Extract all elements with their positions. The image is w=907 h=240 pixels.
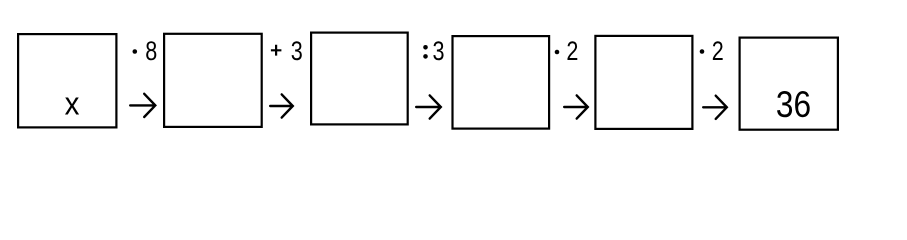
svg-text:3: 3: [291, 37, 303, 67]
box B6 (result): [740, 38, 838, 130]
label ·8 digit 8: [145, 37, 157, 67]
arrow A5: [703, 96, 727, 119]
svg-text:x: x: [65, 85, 80, 121]
label ·2 (second) operator dot: [700, 49, 705, 54]
box B2: [164, 34, 262, 127]
label :3 digit 3: [432, 37, 444, 67]
arrow A3: [416, 95, 441, 118]
label ·2 (first) digit 2: [566, 37, 578, 67]
box B4: [453, 36, 550, 129]
label ·2 (second) digit 2: [712, 37, 724, 67]
label ·8 operator dot: [133, 49, 138, 54]
arrow A2: [270, 94, 293, 117]
box B5: [595, 36, 692, 129]
label +3 digit 3: [291, 37, 303, 67]
box B3: [311, 33, 408, 125]
arrow A4: [564, 95, 588, 118]
box B1 (input): [18, 34, 116, 127]
svg-text:8: 8: [145, 37, 157, 67]
svg-text:2: 2: [712, 37, 724, 67]
label :3 colon: [423, 45, 428, 59]
svg-text:36: 36: [776, 85, 811, 126]
label ·2 (first) operator dot: [555, 50, 560, 55]
label +3 plus sign: [271, 45, 282, 56]
value label 36 in box B6: [776, 85, 811, 126]
svg-text:2: 2: [566, 37, 578, 67]
arrow A1: [130, 94, 155, 117]
svg-text:3: 3: [432, 37, 444, 67]
value label x in box B1: [65, 85, 80, 121]
